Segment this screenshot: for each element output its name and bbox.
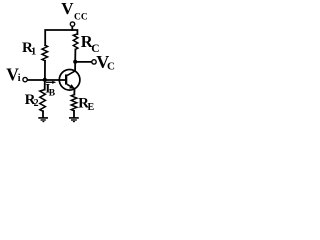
label R2 (25, 92, 39, 109)
transistor Q1 base bar (65, 74, 67, 84)
svg-text:CC: CC (74, 12, 88, 22)
transistor Q1 emitter stroke with arrow (67, 84, 75, 89)
node collector junction dot (73, 60, 77, 64)
ground below RE (69, 118, 79, 122)
arrow IB base current (46, 81, 56, 84)
label RE (78, 95, 94, 113)
ground below R2 (38, 118, 48, 122)
terminal VC circle (92, 60, 96, 64)
wire VCC lead (71, 26, 73, 30)
svg-text:V: V (61, 0, 74, 18)
label R1 (22, 40, 36, 58)
resistor R1 (42, 45, 48, 61)
wire base: Vi terminal to transistor base (27, 79, 65, 81)
svg-text:C: C (91, 43, 99, 55)
resistor RC (73, 34, 78, 49)
label VC (96, 52, 115, 73)
node base junction dot (43, 78, 47, 82)
label VCC (61, 0, 88, 22)
terminal VCC circle (70, 22, 74, 26)
svg-text:B: B (49, 89, 56, 99)
wire emitter lead to RE (73, 89, 75, 95)
wire RC bottom lead to collector node (74, 49, 76, 61)
resistor RE (71, 95, 77, 111)
svg-text:C: C (107, 61, 115, 73)
svg-text:E: E (88, 102, 95, 113)
svg-text:i: i (18, 73, 21, 84)
wire top rail from R1 top to RC top (45, 30, 77, 45)
wire R2 top lead from base node (44, 80, 46, 90)
wire R1 bottom lead to base node (44, 61, 46, 80)
svg-text:1: 1 (31, 46, 36, 57)
terminal Vi circle (23, 77, 27, 81)
wire RE bottom lead to ground (73, 111, 75, 118)
wire R2 bottom lead to ground (42, 111, 44, 117)
label Vi (6, 64, 20, 84)
wire collector node to VC terminal (75, 61, 92, 63)
label RC (81, 32, 100, 55)
transistor Q1 circle (59, 70, 80, 91)
transistor Q1 collector stroke (67, 71, 75, 76)
wire collector lead down into transistor (74, 62, 76, 71)
label IB (45, 80, 55, 98)
svg-text:2: 2 (34, 98, 39, 109)
resistor R2 (40, 90, 46, 112)
